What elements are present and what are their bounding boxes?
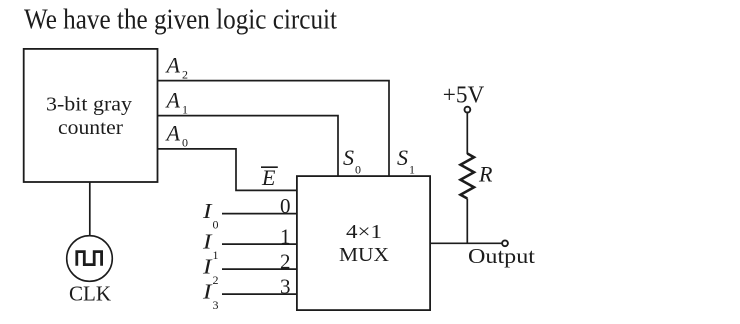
counter U1 (3-bit gray counter box) (24, 49, 158, 182)
svg-text:E: E (261, 165, 276, 190)
svg-text:1: 1 (280, 225, 291, 249)
svg-text:We have the given logic circui: We have the given logic circuit (24, 5, 337, 36)
svg-text:A: A (165, 52, 181, 77)
label I2 (202, 254, 219, 286)
wire resistor to output (466, 199, 468, 244)
wire A1 (counter to S0 input of MUX) (158, 116, 339, 177)
svg-text:MUX: MUX (339, 244, 390, 266)
svg-text:R: R (478, 162, 493, 187)
svg-text:0: 0 (280, 194, 291, 218)
svg-text:0: 0 (355, 162, 361, 176)
wire I0 (222, 213, 297, 215)
wire I3 (222, 293, 297, 295)
node +5V terminal (465, 107, 471, 113)
label I0 (202, 199, 219, 231)
label I1 (202, 229, 219, 261)
svg-text:2: 2 (280, 250, 291, 274)
svg-text:A: A (165, 121, 181, 146)
label A1 (165, 87, 189, 116)
node Output terminal (502, 240, 508, 246)
label E-bar (enable) (261, 165, 278, 190)
svg-text:S: S (343, 145, 354, 170)
svg-text:1: 1 (182, 102, 188, 116)
svg-text:CLK: CLK (69, 281, 111, 305)
svg-text:I: I (202, 254, 213, 278)
svg-text:0: 0 (213, 217, 219, 231)
svg-text:I: I (202, 279, 213, 303)
svg-text:4×1: 4×1 (346, 221, 382, 243)
svg-text:3-bit gray: 3-bit gray (46, 94, 132, 116)
label S0 (343, 145, 361, 176)
svg-text:1: 1 (213, 248, 219, 262)
wire MUX output (430, 242, 502, 244)
svg-text:2: 2 (182, 67, 188, 81)
svg-text:3: 3 (280, 275, 291, 299)
wire +5V to resistor (466, 113, 468, 154)
svg-text:counter: counter (58, 117, 123, 139)
wire A0 (counter to enable input of MUX) (158, 149, 297, 191)
mux U2 (4x1 MUX box) (297, 176, 430, 310)
svg-text:+5V: +5V (443, 83, 485, 109)
label I3 (202, 279, 219, 311)
svg-text:2: 2 (213, 273, 219, 287)
wire I1 (222, 243, 297, 245)
svg-text:I: I (202, 229, 213, 253)
svg-text:3: 3 (213, 298, 219, 312)
svg-text:A: A (165, 87, 181, 112)
wire I2 (222, 268, 297, 270)
label A0 (165, 121, 189, 150)
label S1 (397, 145, 415, 176)
wire CLK (counter clock input) (89, 182, 91, 236)
svg-text:0: 0 (182, 136, 188, 150)
svg-text:Output: Output (468, 244, 535, 268)
resistor R (461, 154, 475, 199)
label A2 (165, 52, 189, 81)
wire A2 (counter to S1 input of MUX) (158, 81, 390, 177)
svg-text:1: 1 (409, 162, 415, 176)
svg-text:I: I (202, 199, 213, 223)
clock source CLK (circle with pulse waveform) (67, 236, 113, 282)
svg-text:S: S (397, 145, 408, 170)
